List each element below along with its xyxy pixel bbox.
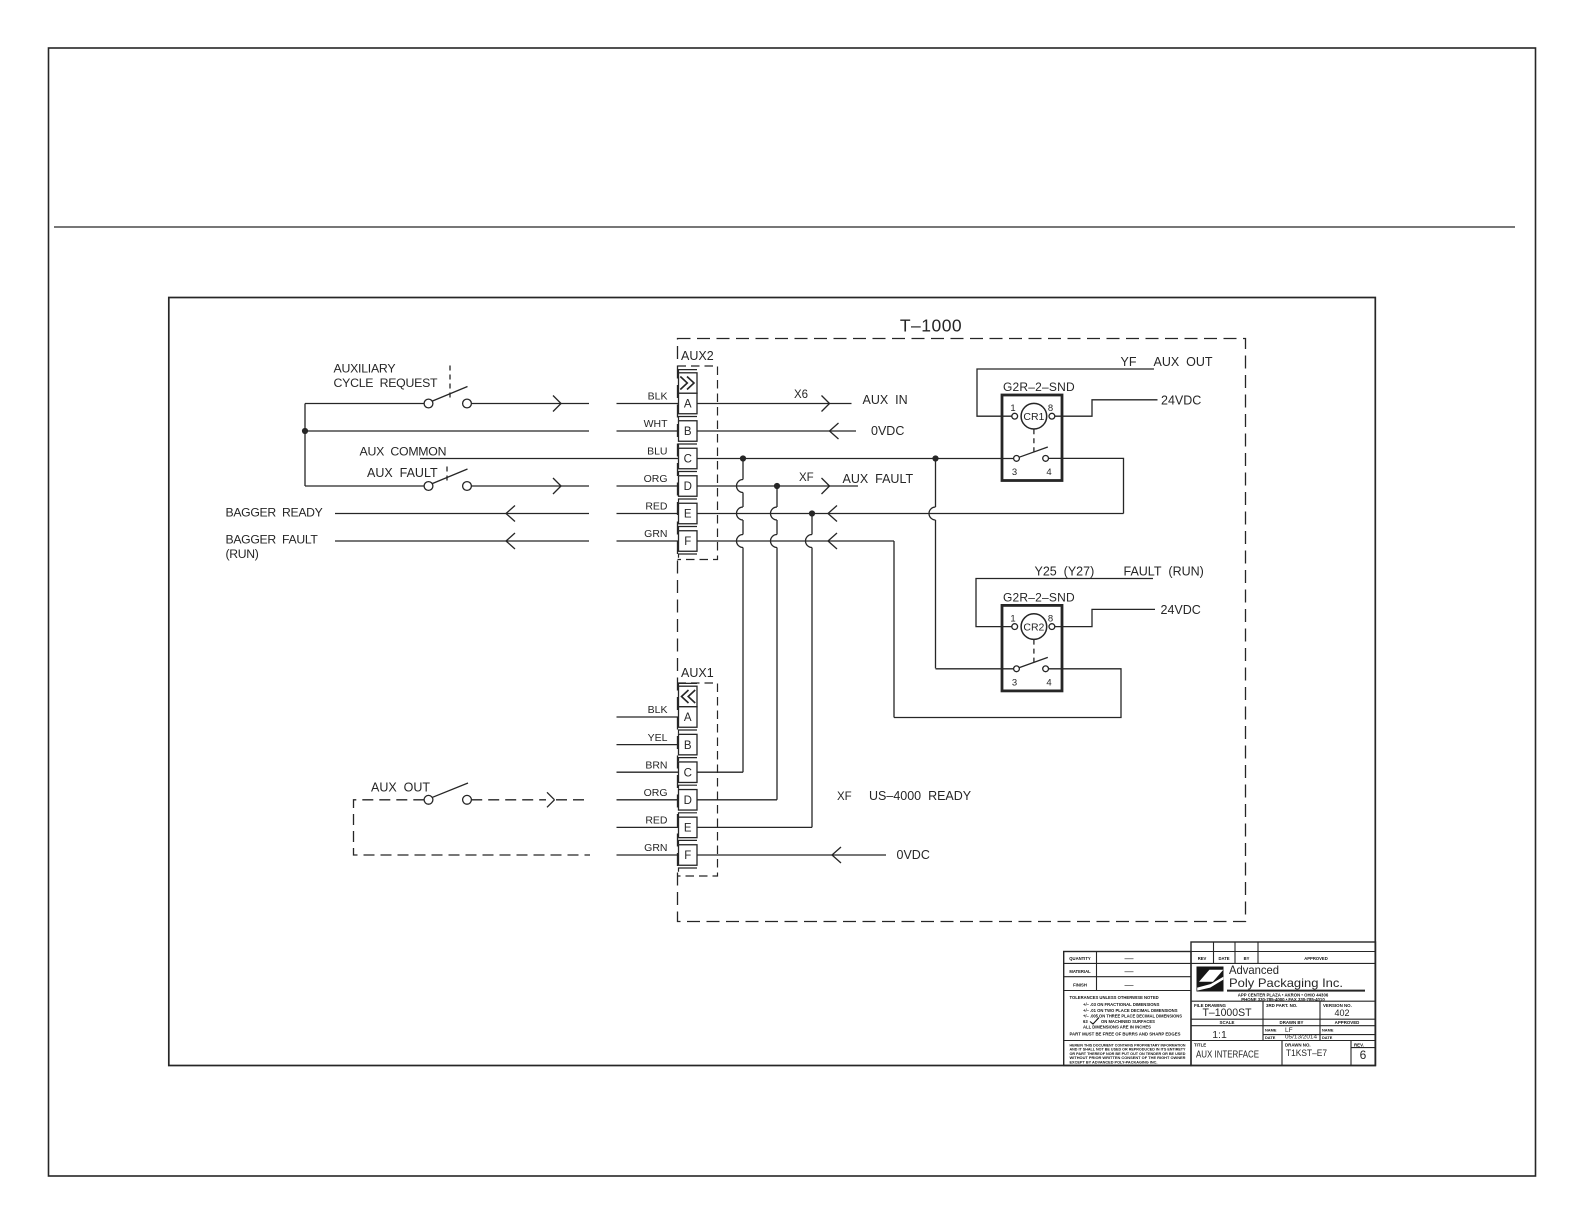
junction node on bus at row B [302,428,308,434]
svg-text:AUX OUT: AUX OUT [1154,355,1213,369]
wire 0VDC into AUX1-F [697,847,886,863]
svg-text:DRAWN BY: DRAWN BY [1280,1020,1304,1025]
wire stub into AUX2-B [617,430,679,432]
wire row E (bagger ready) with arrow [335,506,589,522]
svg-text:G2R–2–SND: G2R–2–SND [1003,590,1075,604]
svg-text:24VDC: 24VDC [1161,393,1201,407]
wire stub into AUX1-C [617,771,679,773]
svg-text:BY: BY [1244,956,1250,961]
svg-text:FAULT (RUN): FAULT (RUN) [1124,565,1204,579]
title block: revision header row [1191,942,1376,1066]
wire CR2 pin 4 return loop to AUX2-F [894,669,1121,718]
wire stub into AUX2-C [617,458,679,460]
svg-text:0VDC: 0VDC [897,848,930,862]
wire drop from node C to CR2 pin 3 (hops E) [929,459,936,669]
wire BRN drop from node C to AUX1-C (hops D,E,F) [737,459,744,773]
terminal AUX2-A [679,393,698,420]
svg-text:0VDC: 0VDC [871,424,904,438]
terminal AUX1-F [679,845,698,872]
relay CR1 contact blade [1019,447,1048,457]
wire stub into AUX2-F [617,540,679,542]
svg-text:GRN: GRN [644,842,667,854]
terminal AUX2-F [679,531,698,558]
wire row D left segment [305,485,424,487]
svg-text:24VDC: 24VDC [1161,603,1201,617]
wire aux common bus vertical [304,404,306,487]
wire CR1 pin 1 to YF aux out [977,369,1154,416]
relay CR2 coil [1021,614,1047,640]
svg-text:US–4000 READY: US–4000 READY [869,789,972,803]
wire CR1 pin 4 return to row E [1049,458,1124,513]
svg-text:ORG: ORG [644,787,668,799]
dashed wire aux out to AUX1-D with arrow [471,792,590,807]
svg-text:E: E [684,823,692,835]
wire stub into AUX1-F [617,854,679,856]
relay CR2 actuator dashed link [1033,640,1035,663]
svg-text:402: 402 [1334,1008,1349,1018]
svg-text:RED: RED [645,815,668,827]
wire row B (aux common) [305,430,589,432]
svg-text:Poly Packaging Inc.: Poly Packaging Inc. [1229,976,1343,990]
wire GRN riser from AUX2-F loop to CR2 pin 4 return [893,541,895,718]
title block: drawing info rows [1191,1001,1376,1041]
svg-text:+/– .03 ON FRACTIONAL DIMENSIO: +/– .03 ON FRACTIONAL DIMENSIONS [1083,1002,1160,1007]
svg-text:AUX FAULT: AUX FAULT [367,466,438,480]
svg-text:CR2: CR2 [1023,622,1044,634]
label BAGGER FAULT (RUN) [226,533,319,562]
svg-text:AUXILIARY: AUXILIARY [334,362,396,376]
svg-text:REV: REV [1198,956,1207,961]
junction node C / BRN drop [740,455,746,461]
svg-text:GRN: GRN [644,528,667,540]
wire AUX1-C to BRN drop [697,771,743,773]
svg-text:AUX FAULT: AUX FAULT [843,472,914,486]
wire stub into AUX2-E [617,513,679,515]
wire stub into AUX2-D [617,485,679,487]
logo Advanced Poly Packaging [1197,967,1224,992]
svg-text:T–1000: T–1000 [900,316,962,336]
svg-text:Y25 (Y27): Y25 (Y27) [1035,565,1095,579]
relay CR1 coil [1021,403,1047,429]
terminal AUX1-E [679,817,698,844]
svg-text:BLK: BLK [648,704,668,716]
svg-text:1: 1 [1010,403,1015,414]
wire CR2 pin 8 to 24VDC [1055,609,1155,626]
wire CR1 pin 8 to 24VDC [1055,400,1158,416]
svg-text:XF: XF [799,472,814,484]
svg-text:6: 6 [1360,1048,1367,1062]
wire X6 aux in from AUX2-A [697,396,852,412]
wire XF aux fault from AUX2-D [697,478,858,494]
svg-text:TITLE: TITLE [1194,1043,1206,1048]
svg-text:SCALE: SCALE [1220,1020,1235,1025]
relay CR2 pin 4 [1043,666,1052,689]
switch aux fault [424,467,471,491]
svg-text:LF: LF [1285,1027,1293,1034]
svg-text:BLK: BLK [648,391,668,403]
wire 0VDC into AUX2-B [697,423,856,439]
svg-text:(RUN): (RUN) [226,547,259,561]
terminal AUX1-A [679,707,698,734]
svg-text:3RD PART. NO.: 3RD PART. NO. [1266,1003,1297,1008]
label XF US-4000 READY [837,789,972,803]
connector AUX2 dashed outline [678,366,718,560]
svg-text:8: 8 [1048,613,1053,624]
dashed wire aux out left loop [354,800,591,855]
svg-text:E: E [684,509,692,521]
svg-text:B: B [684,426,692,438]
terminal AUX2-D [679,476,698,503]
wire row A after switch with arrow [471,396,589,412]
svg-text:ORG: ORG [644,473,668,485]
terminal AUX1-B [679,734,698,761]
svg-text:—: — [1125,966,1134,976]
svg-text:8: 8 [1048,403,1053,414]
svg-text:BLU: BLU [647,446,667,458]
svg-text:AUX IN: AUX IN [863,393,908,407]
svg-text:AUX INTERFACE: AUX INTERFACE [1196,1050,1259,1061]
terminal AUX2-E [679,503,698,530]
wire node C drop into CR2 pin 3 [936,668,1014,670]
svg-text:FINISH: FINISH [1073,982,1087,987]
svg-text:PART MUST BE FREE OF BURRS AND: PART MUST BE FREE OF BURRS AND SHARP EDG… [1070,1032,1181,1037]
wire stub into AUX1-A [617,716,679,718]
connector AUX2 keying symbol [679,373,698,394]
wire CR2 pin 1 to Y25 fault [976,579,1153,627]
company name Advanced Poly Packaging Inc. [1227,963,1365,1002]
svg-text:A: A [684,399,692,411]
relay CR1 pin 1 [1010,403,1017,419]
svg-text:D: D [684,481,692,493]
T-1000 enclosure dashed box [678,339,1246,922]
svg-text:C: C [684,454,692,466]
svg-text:B: B [684,740,692,752]
relay CR1 pin 4 [1043,456,1052,479]
svg-text:CR1: CR1 [1023,411,1044,423]
wire row C left segment [420,458,617,460]
svg-text:ALL DIMENSIONS ARE IN INCHES: ALL DIMENSIONS ARE IN INCHES [1083,1025,1151,1030]
svg-text:G2R–2–SND: G2R–2–SND [1003,380,1075,394]
svg-text:—: — [1125,980,1134,990]
svg-text:X6: X6 [794,389,808,401]
terminal AUX1-D [679,790,698,817]
svg-text:AUX2: AUX2 [681,349,714,363]
wire ORG drop from node D to AUX1-D (hops E,F) [771,486,777,800]
connector AUX1 dashed outline [678,683,718,876]
svg-text:ON MACHINED SURFACES: ON MACHINED SURFACES [1101,1019,1155,1024]
svg-text:QUANTITY: QUANTITY [1069,956,1091,961]
terminal AUX2-C [679,448,698,475]
svg-text:—: — [1125,953,1134,963]
svg-text:BAGGER FAULT: BAGGER FAULT [226,533,319,547]
connector AUX1 top separator lip [679,683,698,686]
terminal AUX2-B [679,421,698,448]
svg-text:1:1: 1:1 [1212,1029,1227,1041]
svg-text:REV.: REV. [1354,1043,1364,1048]
title block: title row [1194,1041,1376,1066]
svg-text:MATERIAL: MATERIAL [1069,969,1091,974]
wire row C from AUX2-C to relay CR1 pin 3 [697,458,1014,460]
relay CR1 pin 8 [1048,403,1055,419]
wire AUX1-D to ORG drop [697,799,777,801]
svg-text:1: 1 [1010,613,1015,624]
terminal AUX1-C [679,762,698,789]
junction node C / CR2 drop [932,455,938,461]
svg-text:D: D [684,795,692,807]
relay CR2 contact blade [1019,657,1048,667]
svg-text:YEL: YEL [648,732,668,744]
switch aux out (dashed circuit) [424,783,471,804]
svg-text:3: 3 [1012,467,1017,478]
svg-text:DRAWN NO.: DRAWN NO. [1285,1043,1311,1048]
relay CR2 pin 8 [1048,613,1055,629]
relay CR1 pin 3 [1012,456,1020,479]
svg-text:T–1000ST: T–1000ST [1203,1007,1252,1019]
wire row A left segment [305,403,424,405]
svg-text:4: 4 [1046,467,1051,478]
relay CR1 body [1002,395,1062,481]
svg-text:05/13/2014: 05/13/2014 [1285,1035,1317,1041]
svg-text:63: 63 [1083,1019,1088,1024]
svg-text:T1KST–E7: T1KST–E7 [1286,1048,1327,1058]
svg-text:WHT: WHT [644,418,668,430]
svg-text:+/– .01 ON TWO PLACE DECIMAL D: +/– .01 ON TWO PLACE DECIMAL DIMENSIONS [1083,1008,1178,1013]
svg-text:CYCLE REQUEST: CYCLE REQUEST [334,376,439,390]
svg-text:AUX OUT: AUX OUT [371,781,430,795]
wire AUX1-E to RED drop [697,826,812,828]
svg-text:DATE: DATE [1322,1035,1333,1040]
svg-text:4: 4 [1046,677,1051,688]
connector AUX2 top separator lip [679,370,698,373]
relay CR2 pin 1 [1010,613,1017,629]
svg-text:AUX COMMON: AUX COMMON [360,445,447,459]
relay CR2 body [1002,605,1062,691]
label AUXILIARY CYCLE REQUEST [334,362,439,391]
wire stub into AUX1-B [617,744,679,746]
relay CR1 actuator dashed link [1033,429,1035,452]
wire row F from AUX2-F to CR2 loop [697,533,894,549]
svg-text:AUX1: AUX1 [681,666,714,680]
wire row F (bagger fault) with arrow [335,533,589,549]
svg-text:C: C [684,767,692,779]
wire row E from AUX2-E to CR1 pin 4 riser [697,506,1124,522]
wire stub into AUX1-D [617,799,679,801]
svg-text:APPROVED: APPROVED [1304,956,1328,961]
wire RED drop from node E to AUX1-E (hops F) [806,514,813,828]
relay CR2 pin 3 [1012,666,1020,689]
title block: left info section [1064,952,1191,1066]
svg-text:EXCEPT BY ADVANCED POLY-PACKAG: EXCEPT BY ADVANCED POLY-PACKAGING INC. [1070,1059,1158,1064]
svg-text:BAGGER READY: BAGGER READY [226,506,323,520]
svg-text:NAME: NAME [1322,1027,1334,1032]
svg-text:+/– .005 ON THREE PLACE DECIMA: +/– .005 ON THREE PLACE DECIMAL DIMENSIO… [1083,1014,1182,1019]
svg-text:XF: XF [837,791,852,803]
switch auxiliary cycle request [424,366,471,408]
svg-text:3: 3 [1012,677,1017,688]
svg-text:RED: RED [645,501,668,513]
svg-text:Advanced: Advanced [1229,963,1279,977]
connector AUX1 keying symbol [679,686,698,707]
svg-text:F: F [684,536,691,548]
svg-text:APPROVED: APPROVED [1335,1020,1360,1025]
wire stub into AUX2-A [617,403,679,405]
svg-text:DATE: DATE [1218,956,1229,961]
wire stub into AUX1-E [617,826,679,828]
svg-text:DATE: DATE [1265,1035,1276,1040]
junction node D / ORG drop [774,483,780,489]
svg-text:A: A [684,712,692,724]
svg-text:TOLERANCES UNLESS OTHERWISE NO: TOLERANCES UNLESS OTHERWISE NOTED [1070,995,1159,1000]
svg-text:BRN: BRN [645,759,667,771]
wire row D after switch with arrow [471,478,589,494]
svg-text:NAME: NAME [1265,1027,1277,1032]
svg-text:F: F [684,850,691,862]
svg-text:YF: YF [1121,355,1137,369]
junction node E / RED drop [809,510,815,516]
